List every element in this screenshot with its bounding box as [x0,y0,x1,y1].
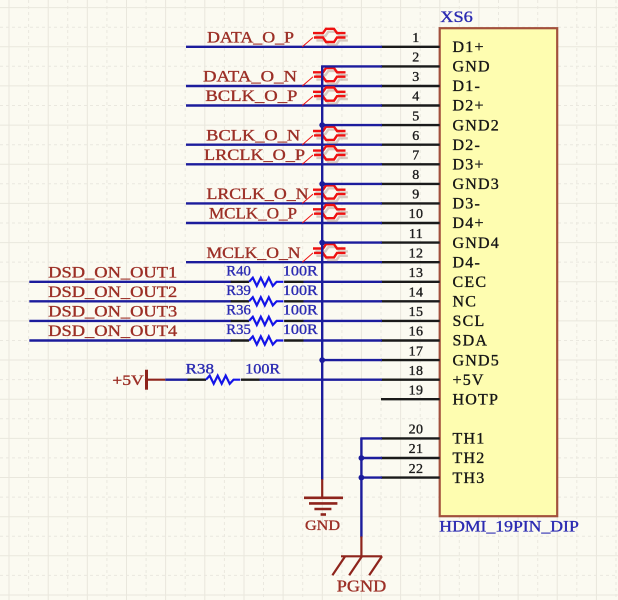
svg-text:D4-: D4- [453,254,481,271]
svg-text:TH1: TH1 [453,431,486,448]
wire GND to pin 8 [321,183,382,185]
ground GND [304,479,343,534]
svg-text:+5V: +5V [112,373,144,389]
svg-text:19: 19 [409,383,424,398]
svg-text:SCL: SCL [453,313,486,330]
svg-text:DATA_O_N: DATA_O_N [203,69,298,86]
net label BCLK_O_P [205,88,297,105]
pin 11 (GND4) [381,227,500,252]
pin 10 (D4+) [381,207,485,232]
pin 21 (TH2) [381,442,485,467]
diff-pair directive on BCLK_O_N [302,127,348,145]
power port +5V [112,370,165,390]
diff-pair directive on LRCLK_O_N [302,185,348,203]
junction at bus pin 5 [319,122,325,128]
pin 1 (D1+) [381,31,485,56]
net label LRCLK_O_N [207,186,309,203]
svg-text:SDA: SDA [453,333,489,350]
svg-text:PGND: PGND [337,576,387,595]
svg-text:100R: 100R [283,264,318,280]
svg-text:100R: 100R [283,283,318,299]
svg-text:D4+: D4+ [453,215,485,232]
svg-text:HDMI_19PIN_DIP: HDMI_19PIN_DIP [439,518,579,535]
svg-text:NC: NC [453,294,478,311]
svg-text:R40: R40 [226,264,251,280]
svg-text:BCLK_O_N: BCLK_O_N [206,127,301,144]
diff-pair directive on LRCLK_O_P [302,146,348,164]
wire net DSD_ON_OUT2 left [29,300,231,302]
svg-text:+5V: +5V [453,372,485,389]
net label DATA_O_N [203,69,298,86]
diff-pair directive on MCLK_O_N [302,244,348,262]
svg-text:5: 5 [412,109,419,124]
pin 18 (+5V) [381,364,485,389]
junction TH pin 22 [359,475,365,481]
svg-text:MCLK_O_P: MCLK_O_P [209,206,297,223]
net label DSD_ON_OUT3 [48,304,177,321]
svg-text:15: 15 [409,305,424,320]
svg-text:10: 10 [409,207,424,222]
svg-text:13: 13 [409,266,424,281]
pin 7 (D3+) [381,149,485,174]
svg-text:CEC: CEC [453,274,488,291]
pin 22 (TH3) [381,462,485,487]
wire net MCLK_O_N [186,261,382,263]
svg-text:DSD_ON_OUT1: DSD_ON_OUT1 [48,264,177,281]
svg-text:11: 11 [409,227,423,242]
diff-pair directive on BCLK_O_P [302,88,348,106]
wire net LRCLK_O_N [186,202,382,204]
svg-text:22: 22 [409,462,424,477]
svg-text:GND: GND [305,518,340,534]
svg-text:100R: 100R [283,322,318,338]
pin 20 (TH1) [381,423,485,448]
resistor R39 100R [226,283,317,305]
connector XS6 body [440,28,558,516]
pin 9 (D3-) [381,188,481,213]
wire net DSD_ON_OUT2 right to pin 14 [304,300,383,302]
svg-text:4: 4 [412,90,419,105]
wire net BCLK_O_N [186,143,382,145]
resistor R36 100R [226,303,317,325]
svg-text:16: 16 [409,325,424,340]
wire net DSD_ON_OUT1 left [29,281,231,283]
resistor R40 100R [226,264,317,286]
wire net DSD_ON_OUT3 right to pin 15 [304,320,383,322]
junction at bus pin 8 [319,181,325,187]
designator XS6 [440,9,473,26]
svg-text:GND: GND [453,59,491,76]
svg-text:12: 12 [409,246,424,261]
junction TH pin 21 [359,455,365,461]
svg-text:GND3: GND3 [453,176,500,193]
svg-text:GND4: GND4 [453,235,500,252]
svg-text:GND2: GND2 [453,117,500,134]
svg-text:HOTP: HOTP [453,391,500,408]
svg-text:D2-: D2- [453,137,481,154]
svg-text:DATA_O_P: DATA_O_P [207,30,294,47]
wire GND to pin 5 [321,124,382,126]
svg-text:R38: R38 [186,361,215,377]
diff-pair directive on MCLK_O_P [302,205,348,223]
svg-text:D1-: D1- [453,78,481,95]
wire net MCLK_O_P [186,222,382,224]
svg-text:R35: R35 [226,322,251,338]
svg-text:DSD_ON_OUT4: DSD_ON_OUT4 [48,323,177,340]
pin 12 (D4-) [381,246,481,271]
svg-text:6: 6 [412,129,419,144]
comment HDMI_19PIN_DIP [439,518,579,535]
wire net DATA_O_P [186,46,382,48]
svg-text:20: 20 [409,423,424,438]
net label DATA_O_P [207,30,294,47]
wire to pin 22 [360,476,382,478]
svg-text:D2+: D2+ [453,98,485,115]
wire net DSD_ON_OUT3 left [29,320,231,322]
pin 13 (CEC) [381,266,487,291]
ground PGND (chassis) [332,536,386,595]
pin 2 (GND) [381,51,491,76]
svg-text:17: 17 [409,344,424,359]
wire GND bus vertical [321,66,323,479]
diff-pair directive on DATA_O_N [302,68,348,86]
svg-text:1: 1 [412,31,419,46]
svg-text:D3-: D3- [453,196,481,213]
net label LRCLK_O_P [204,147,305,164]
pin 16 (SDA) [381,325,488,350]
diff-pair directive on DATA_O_P [302,29,348,47]
wire to pin 21 [360,457,382,459]
wire net DSD_ON_OUT4 right to pin 16 [304,339,383,341]
svg-text:LRCLK_O_P: LRCLK_O_P [204,147,305,164]
svg-text:R39: R39 [226,283,251,299]
net label MCLK_O_N [207,245,301,262]
wire TH vertical [360,438,362,537]
wire GND to pin 11 [321,241,382,243]
pin 6 (D2-) [381,129,481,154]
net label MCLK_O_P [209,206,297,223]
svg-text:8: 8 [412,168,419,183]
net label DSD_ON_OUT4 [48,323,177,340]
pin 17 (GND5) [381,344,500,369]
net label DSD_ON_OUT1 [48,264,177,281]
svg-text:GND5: GND5 [453,352,500,369]
wire net DSD_ON_OUT4 left [29,339,231,341]
svg-text:7: 7 [412,149,419,164]
svg-text:XS6: XS6 [440,9,473,26]
net label BCLK_O_N [206,127,301,144]
wire net DATA_O_N [186,85,382,87]
svg-text:LRCLK_O_N: LRCLK_O_N [207,186,309,203]
svg-text:MCLK_O_N: MCLK_O_N [207,245,301,262]
pin 5 (GND2) [381,109,500,134]
svg-text:2: 2 [412,51,419,66]
pin 19 (HOTP) [381,383,499,408]
resistor R35 100R [226,322,317,344]
svg-text:R36: R36 [226,303,251,319]
wire GND to pin 17 [321,359,382,361]
svg-text:DSD_ON_OUT2: DSD_ON_OUT2 [48,284,177,301]
svg-text:18: 18 [409,364,424,379]
pin 15 (SCL) [381,305,485,330]
svg-text:D3+: D3+ [453,157,485,174]
pin 8 (GND3) [381,168,500,193]
pin 3 (D1-) [381,70,481,95]
svg-text:BCLK_O_P: BCLK_O_P [205,88,297,105]
svg-text:100R: 100R [283,303,318,319]
wire GND to pin 2 [321,65,382,67]
wire net LRCLK_O_P [186,163,382,165]
svg-text:100R: 100R [245,361,280,377]
svg-text:DSD_ON_OUT3: DSD_ON_OUT3 [48,304,177,321]
svg-text:3: 3 [412,70,419,85]
pin 4 (D2+) [381,90,485,115]
junction at bus pin 11 [319,240,325,246]
wire net DSD_ON_OUT1 right to pin 13 [304,281,383,283]
pin 14 (NC) [381,286,477,311]
wire +5V to R38 [165,379,188,381]
svg-text:9: 9 [412,188,419,203]
svg-text:TH2: TH2 [453,450,486,467]
resistor R38 100R [186,361,281,383]
wire R38 to pin 18 [260,379,383,381]
net label DSD_ON_OUT2 [48,284,177,301]
svg-text:21: 21 [409,442,424,457]
svg-text:TH3: TH3 [453,470,486,487]
svg-text:D1+: D1+ [453,39,485,56]
wire net BCLK_O_P [186,104,382,106]
junction at bus pin 17 [319,357,325,363]
wire to pin 20 [360,437,382,439]
svg-text:14: 14 [409,286,424,301]
